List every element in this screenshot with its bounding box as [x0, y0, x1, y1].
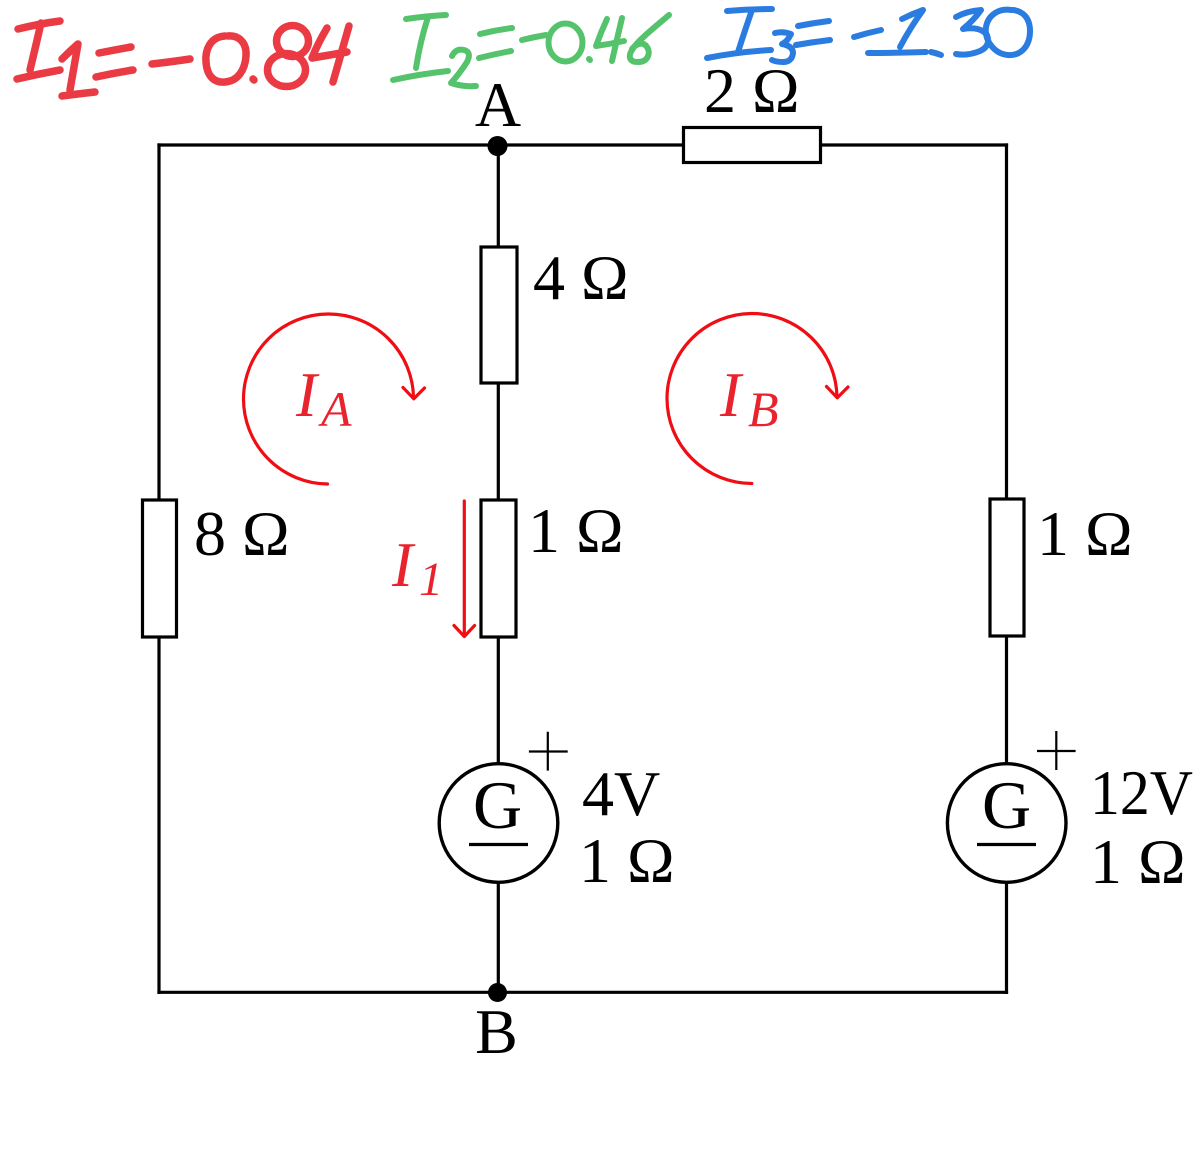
svg-text:I: I — [719, 360, 744, 430]
svg-text:A: A — [318, 381, 352, 437]
generator G2 underline — [977, 843, 1036, 846]
resistor 4 ohm (middle upper) — [481, 247, 517, 383]
svg-text:4V: 4V — [582, 758, 660, 829]
handwritten blue I3 = -1.30 — [707, 9, 1030, 62]
svg-text:4 Ω: 4 Ω — [533, 242, 629, 313]
svg-text:I: I — [295, 360, 320, 430]
resistor 1 ohm (right) — [990, 499, 1024, 636]
svg-text:G: G — [982, 767, 1031, 843]
svg-text:1 Ω: 1 Ω — [1090, 826, 1186, 897]
resistor 8 ohm (left) — [143, 500, 177, 637]
svg-text:A: A — [475, 69, 521, 140]
generator G2 plus sign — [1037, 731, 1076, 770]
wire middle branch — [497, 145, 500, 992]
svg-text:1 Ω: 1 Ω — [528, 495, 624, 566]
svg-text:I: I — [391, 530, 416, 600]
resistor 1 ohm (middle lower) — [481, 500, 516, 637]
mesh current loop IB arrow — [667, 314, 848, 484]
svg-text:1: 1 — [419, 553, 443, 606]
wire bottom (through node B) — [157, 991, 1008, 994]
svg-text:B: B — [475, 996, 518, 1067]
generator G2 circle — [947, 764, 1066, 883]
svg-text:1 Ω: 1 Ω — [579, 825, 675, 896]
svg-text:8 Ω: 8 Ω — [194, 498, 290, 569]
generator G1 underline — [469, 843, 528, 846]
wire top (node A to corners) — [157, 143, 1008, 146]
svg-text:2 Ω: 2 Ω — [704, 55, 800, 126]
svg-text:B: B — [748, 381, 779, 437]
wire left — [157, 143, 160, 994]
svg-text:12V: 12V — [1090, 757, 1193, 828]
branch current I1 arrow — [454, 501, 475, 637]
svg-text:1 Ω: 1 Ω — [1037, 498, 1133, 569]
resistor 2 ohm (top) — [684, 128, 821, 163]
handwritten red I1 = -0.84 — [17, 21, 349, 96]
generator G1 plus sign — [529, 732, 568, 771]
wire right — [1005, 143, 1008, 994]
node A dot — [488, 136, 508, 156]
handwritten green I2 = -0.46 — [393, 15, 669, 86]
node B dot — [488, 983, 507, 1002]
mesh current loop IA arrow — [244, 314, 425, 484]
generator G1 circle — [439, 764, 558, 883]
svg-text:G: G — [473, 767, 522, 843]
